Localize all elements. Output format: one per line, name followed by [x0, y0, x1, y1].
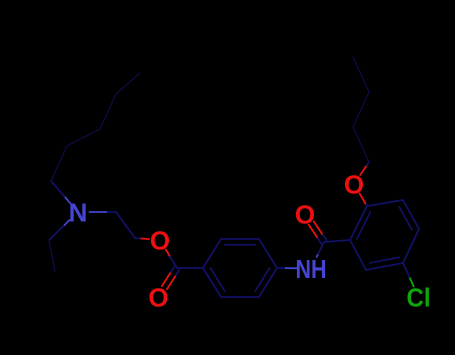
svg-text:O: O	[150, 226, 170, 256]
svg-text:O: O	[148, 283, 168, 313]
svg-text:Cl: Cl	[407, 283, 431, 313]
svg-text:O: O	[295, 200, 315, 230]
svg-text:NH: NH	[296, 254, 327, 284]
svg-text:N: N	[69, 198, 88, 228]
svg-text:O: O	[344, 170, 364, 200]
